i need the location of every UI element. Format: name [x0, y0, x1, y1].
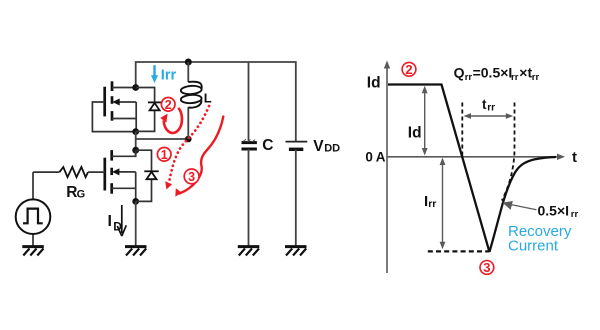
red dotted current path arrow [165, 106, 209, 190]
marker circled 3 (circuit) [184, 169, 199, 184]
ground battery [285, 247, 307, 256]
Irr measurement arrow [440, 158, 446, 250]
svg-text:2: 2 [165, 98, 172, 112]
ground capacitor [238, 247, 259, 256]
battery VDD [286, 142, 308, 247]
dashed line Irr minimum level [428, 250, 490, 252]
pointer arrow 0.5xIrr [504, 202, 537, 210]
marker circled 1 (circuit) [157, 148, 171, 162]
svg-text:DD: DD [324, 142, 340, 154]
label 0.5xIrr [538, 202, 579, 220]
node Q2 drain [132, 147, 139, 154]
dashed vertical line trr start [461, 103, 463, 157]
svg-text:1: 1 [161, 148, 168, 162]
marker circled 2 (circuit) [161, 98, 175, 112]
svg-text:I: I [108, 213, 112, 230]
label Irr (measurement) [424, 193, 436, 210]
svg-text:2: 2 [405, 62, 412, 77]
transistor Q1 high-side MOSFET [92, 81, 136, 131]
svg-text:A: A [376, 150, 386, 165]
wire capacitor branch top [248, 62, 250, 142]
resistor RG [33, 167, 105, 177]
svg-text:D: D [113, 220, 122, 234]
diode D2 body diode of Q2 [136, 150, 159, 201]
svg-text:t: t [572, 149, 577, 166]
svg-text:Current: Current [508, 237, 559, 254]
wire Q2 source to ground [135, 201, 137, 246]
Id measurement arrow [422, 86, 428, 156]
node Q2 source [132, 198, 139, 205]
label Recovery Current (cyan) [508, 223, 572, 254]
svg-text:L: L [204, 91, 212, 106]
svg-text:=0.5×I: =0.5×I [473, 65, 513, 81]
svg-text:C: C [262, 137, 273, 154]
svg-text:Irr: Irr [161, 68, 177, 84]
node Q1 source [132, 128, 139, 135]
pulse source V1 [16, 172, 51, 246]
red loop arrow around D1 [160, 108, 182, 133]
dashed vertical line trr end + extrapolation curve [502, 103, 515, 201]
inductor L [181, 62, 202, 139]
graph x-axis (0 A line) [387, 154, 565, 160]
diode D1 body diode of Q1 [136, 88, 162, 132]
transistor Q2 low-side MOSFET [105, 150, 136, 201]
capacitor C [242, 139, 257, 246]
svg-text:rr: rr [571, 209, 579, 220]
trr measurement arrow [464, 113, 514, 119]
waveform Id curve [388, 85, 556, 251]
svg-text:0: 0 [365, 150, 373, 165]
node phase-inductor junction [185, 136, 192, 143]
svg-text:Q: Q [454, 65, 465, 81]
label ID with arrow [108, 205, 127, 236]
label Irr current arrow (cyan) [151, 65, 177, 83]
marker circled 2 (graph) [402, 62, 416, 77]
svg-text:rr: rr [428, 198, 436, 210]
wire top rail VDD net [136, 62, 296, 142]
label RG [66, 184, 85, 201]
marker circled 3 (graph) [480, 260, 494, 275]
svg-text:rr: rr [487, 102, 495, 113]
svg-text:rr: rr [511, 72, 519, 83]
ground pulse source [22, 247, 44, 256]
svg-text:rr: rr [532, 72, 540, 83]
formula Qrr = 0.5 x Irr x trr [454, 65, 540, 83]
node rail-inductor junction [185, 59, 192, 66]
label VDD [313, 138, 340, 155]
svg-text:G: G [77, 188, 86, 200]
graph y-axis [384, 61, 390, 274]
svg-text:3: 3 [483, 260, 490, 275]
svg-text:0.5×I: 0.5×I [538, 202, 570, 218]
wire phase node to inductor [136, 132, 189, 157]
ground Q2 source [125, 247, 147, 256]
svg-text:×t: ×t [519, 65, 532, 81]
label trr [482, 97, 495, 113]
red solid current path arrow 3 [175, 117, 223, 197]
svg-text:Id: Id [408, 124, 422, 141]
node Q1 drain (top) [132, 84, 139, 91]
svg-text:V: V [313, 138, 324, 155]
svg-text:rr: rr [465, 72, 473, 83]
svg-text:3: 3 [188, 170, 195, 184]
svg-text:Id: Id [367, 75, 381, 92]
